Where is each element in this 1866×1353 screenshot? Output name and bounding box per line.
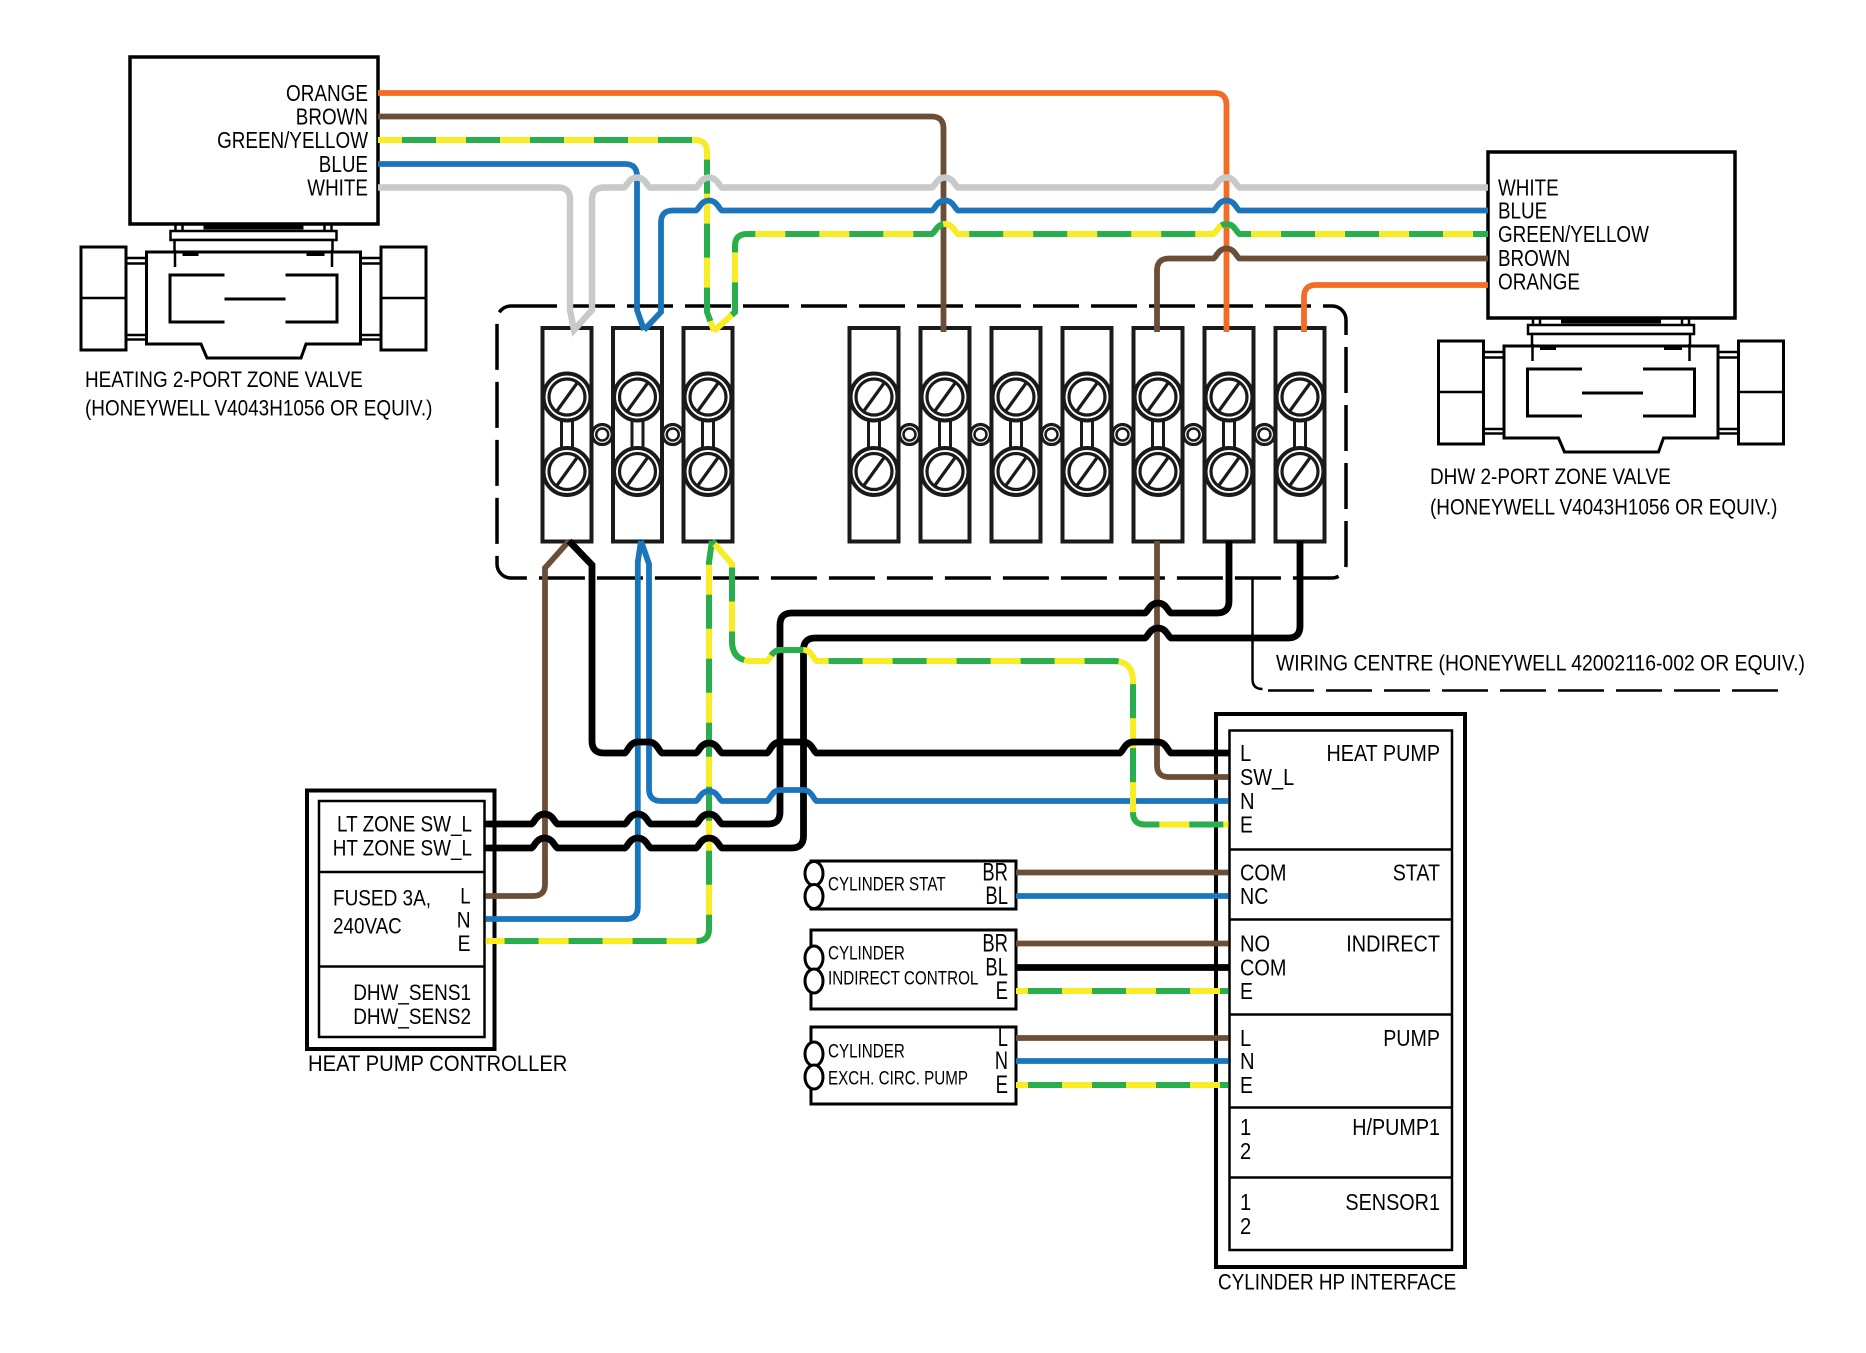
- svg-text:E: E: [1240, 812, 1253, 838]
- wire orange heating valve to T9: [378, 93, 1227, 332]
- wire green/yellow T3 to interface E (green/yellow): [712, 541, 1229, 825]
- wiring centre leader line: [1253, 578, 1263, 689]
- heating valve right pipe fitting: [381, 247, 426, 350]
- svg-text:INDIRECT CONTROL: INDIRECT CONTROL: [828, 969, 978, 990]
- svg-text:SW_L: SW_L: [1240, 764, 1294, 790]
- wire green/yellow T3 to controller E (green/yellow): [486, 541, 713, 941]
- svg-text:(HONEYWELL V4043H1056 OR EQUIV: (HONEYWELL V4043H1056 OR EQUIV.): [1430, 495, 1777, 520]
- terminal block T3: [684, 328, 733, 542]
- wire brown cylinder indirect BR to NO: [1016, 941, 1229, 947]
- wire green/yellow cylinder pump E (green/yellow): [1016, 1082, 1229, 1088]
- svg-text:HEAT PUMP: HEAT PUMP: [1327, 740, 1441, 766]
- wire brown T1 to controller L: [486, 541, 570, 896]
- svg-text:2: 2: [1240, 1213, 1251, 1239]
- terminal link junction 3: [900, 425, 920, 445]
- heating valve mounting plates: [171, 231, 337, 240]
- svg-text:WHITE: WHITE: [307, 175, 368, 201]
- wire black T1 to interface HEAT PUMP L: [569, 541, 1229, 753]
- svg-text:DHW_SENS2: DHW_SENS2: [353, 1004, 471, 1029]
- svg-text:GREEN/YELLOW: GREEN/YELLOW: [1498, 221, 1649, 247]
- svg-text:BL: BL: [985, 882, 1008, 910]
- svg-text:2: 2: [1240, 1138, 1251, 1164]
- svg-text:CYLINDER: CYLINDER: [828, 944, 905, 965]
- svg-text:EXCH. CIRC. PUMP: EXCH. CIRC. PUMP: [828, 1069, 968, 1090]
- svg-text:COM: COM: [1240, 955, 1286, 981]
- svg-text:BLUE: BLUE: [319, 151, 368, 177]
- svg-text:NO: NO: [1240, 931, 1270, 957]
- svg-text:1: 1: [1240, 1114, 1251, 1140]
- terminal link junction 7: [1184, 425, 1204, 445]
- svg-text:H/PUMP1: H/PUMP1: [1352, 1114, 1440, 1140]
- svg-text:SENSOR1: SENSOR1: [1345, 1189, 1440, 1215]
- terminal block T8: [1134, 328, 1183, 542]
- wire orange DHW valve to T10: [1304, 285, 1488, 332]
- heating valve left pipe fitting: [81, 247, 126, 350]
- svg-text:COM: COM: [1240, 860, 1286, 886]
- DHW zone valve actuator box: [1488, 152, 1735, 318]
- terminal block T4: [850, 328, 899, 542]
- cylinder HP interface box: [1216, 714, 1465, 1267]
- terminal block T6: [992, 328, 1041, 542]
- svg-text:STAT: STAT: [1393, 860, 1440, 886]
- svg-text:E: E: [458, 931, 471, 956]
- DHW valve left pipe fitting: [1439, 341, 1484, 444]
- terminal block T9: [1205, 328, 1254, 542]
- wire brown T8 to interface SW_L: [1157, 541, 1229, 777]
- cylinder exch. circ. pump box: [811, 1027, 1016, 1104]
- wire blue cylinder stat BL to NC: [1016, 893, 1229, 899]
- svg-text:ORANGE: ORANGE: [1498, 269, 1580, 295]
- terminal link junction 2: [663, 425, 683, 445]
- wire blue T2 to interface N: [641, 541, 1229, 801]
- cylinder stat box: [811, 861, 1016, 909]
- terminal link junction 4: [971, 425, 991, 445]
- heating zone valve actuator box: [130, 57, 378, 224]
- wire black T9 to controller LT ZONE SW_L: [486, 541, 1230, 824]
- svg-text:ORANGE: ORANGE: [286, 80, 368, 106]
- svg-text:E: E: [996, 1071, 1008, 1099]
- svg-text:HT ZONE SW_L: HT ZONE SW_L: [333, 836, 472, 861]
- svg-text:N: N: [1240, 788, 1255, 814]
- svg-text:WIRING CENTRE (HONEYWELL 42002: WIRING CENTRE (HONEYWELL 42002116-002 OR…: [1276, 651, 1805, 676]
- terminal block T1: [543, 328, 592, 542]
- svg-text:HEATING 2-PORT ZONE VALVE: HEATING 2-PORT ZONE VALVE: [85, 367, 363, 392]
- wire white wire heating valve - T1 - DHW valve: [378, 178, 1488, 331]
- terminal block T5: [921, 328, 970, 542]
- heating valve mounting hatch: [204, 225, 304, 230]
- svg-text:L: L: [460, 884, 470, 909]
- cylinder indirect control cable loops: [805, 946, 823, 970]
- cylinder stat cable loops: [805, 862, 823, 886]
- cylinder exch. circ. pump cable loops: [805, 1042, 823, 1066]
- terminal link junction 8: [1255, 425, 1275, 445]
- wire blue heating valve to T2: [378, 164, 644, 330]
- svg-text:240VAC: 240VAC: [333, 914, 402, 939]
- svg-text:INDIRECT: INDIRECT: [1346, 931, 1440, 957]
- wire blue T2 to controller N: [486, 541, 642, 919]
- terminal link junction 6: [1113, 425, 1133, 445]
- terminal link junction 1: [592, 425, 612, 445]
- DHW valve right pipe fitting: [1739, 341, 1784, 444]
- terminal link junction 5: [1042, 425, 1062, 445]
- svg-text:HEAT PUMP CONTROLLER: HEAT PUMP CONTROLLER: [308, 1051, 567, 1076]
- terminal block T10: [1276, 328, 1325, 542]
- svg-text:E: E: [1240, 978, 1253, 1004]
- wire brown cylinder pump L: [1016, 1035, 1229, 1041]
- wire green/yellow heating valve to T3 (green/yellow): [378, 140, 714, 331]
- heating valve valve symbol: [170, 275, 337, 322]
- wire blue DHW valve to T2: [644, 201, 1488, 331]
- svg-text:N: N: [1240, 1048, 1255, 1074]
- svg-text:BROWN: BROWN: [296, 104, 368, 130]
- wire brown heating valve to T5: [378, 117, 944, 333]
- wire brown DHW valve to T8: [1157, 249, 1488, 333]
- svg-text:CYLINDER: CYLINDER: [828, 1042, 905, 1063]
- svg-text:GREEN/YELLOW: GREEN/YELLOW: [217, 127, 368, 153]
- wire blue cylinder pump N: [1016, 1058, 1229, 1064]
- svg-text:CYLINDER STAT: CYLINDER STAT: [828, 875, 946, 896]
- svg-text:LT ZONE SW_L: LT ZONE SW_L: [337, 812, 472, 837]
- svg-text:BROWN: BROWN: [1498, 245, 1570, 271]
- svg-text:CYLINDER HP INTERFACE: CYLINDER HP INTERFACE: [1218, 1270, 1456, 1295]
- svg-text:L: L: [1240, 740, 1251, 766]
- DHW valve valve symbol: [1528, 369, 1695, 416]
- wiring centre dashed enclosure: [497, 306, 1346, 578]
- DHW valve mounting hatch: [1561, 319, 1661, 324]
- heat pump controller box: [307, 791, 495, 1050]
- svg-text:BLUE: BLUE: [1498, 198, 1547, 224]
- terminal block T7: [1063, 328, 1112, 542]
- svg-text:DHW 2-PORT ZONE VALVE: DHW 2-PORT ZONE VALVE: [1430, 464, 1671, 489]
- heating valve body: [147, 252, 361, 358]
- svg-text:(HONEYWELL V4043H1056 OR EQUIV: (HONEYWELL V4043H1056 OR EQUIV.): [85, 396, 432, 421]
- wire black cylinder indirect BL to COM: [1016, 964, 1229, 971]
- DHW valve body: [1504, 346, 1718, 452]
- svg-text:PUMP: PUMP: [1383, 1025, 1440, 1051]
- svg-text:1: 1: [1240, 1189, 1251, 1215]
- wire brown cylinder stat BR to COM: [1016, 870, 1229, 876]
- svg-text:DHW_SENS1: DHW_SENS1: [353, 980, 471, 1005]
- svg-text:FUSED 3A,: FUSED 3A,: [333, 886, 431, 911]
- terminal block T2: [613, 328, 662, 542]
- wire green/yellow cylinder indirect E (green/yellow): [1016, 988, 1229, 994]
- wire black T10 to controller HT ZONE SW_L: [486, 541, 1301, 848]
- svg-text:NC: NC: [1240, 883, 1268, 909]
- DHW valve mounting plates: [1528, 325, 1694, 334]
- svg-text:E: E: [1240, 1072, 1253, 1098]
- cylinder indirect control box: [811, 930, 1016, 1009]
- svg-text:E: E: [996, 977, 1008, 1005]
- svg-text:N: N: [457, 908, 471, 933]
- wire green/yellow DHW valve to T3 (green/yellow): [714, 224, 1488, 331]
